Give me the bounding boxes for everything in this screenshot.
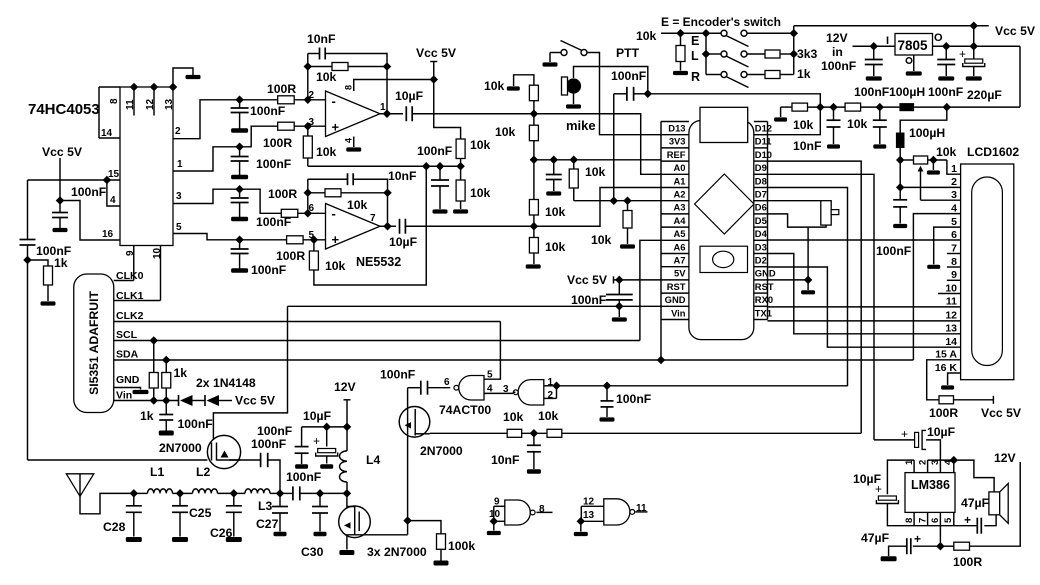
svg-text:D3: D3	[755, 241, 767, 252]
node Vin r1	[150, 396, 158, 404]
GND pin wire	[768, 279, 809, 281]
pot gnd stem	[932, 160, 934, 170]
label 100nF st2	[256, 157, 291, 171]
label PTT	[616, 46, 640, 60]
svg-text:6: 6	[444, 377, 450, 388]
LM386 pin8 label	[904, 518, 915, 523]
svg-text:10k: 10k	[503, 410, 524, 424]
100k gnd stem	[440, 549, 442, 560]
node drive cap	[530, 429, 538, 437]
opamp2 pin6 label	[308, 203, 314, 214]
D10 wire down	[768, 161, 862, 433]
plus 47uF byp	[914, 532, 921, 546]
terminal tick Vcc opamps	[430, 61, 437, 63]
100k wire	[408, 521, 441, 534]
label 10uF out2	[389, 235, 417, 249]
resistor 100R backlight	[939, 396, 954, 404]
svg-text:10µF: 10µF	[853, 472, 881, 486]
wire Vcc stem	[59, 158, 61, 201]
ground 7805	[906, 71, 922, 75]
switch E throw	[741, 30, 747, 36]
svg-text:1: 1	[177, 159, 183, 170]
MCU left pin line A0	[661, 173, 689, 175]
rail seg2	[808, 106, 846, 108]
4053 pin9 wire to CLK0	[133, 246, 135, 281]
svg-text:10nF: 10nF	[793, 139, 821, 153]
stem stack 2	[239, 147, 241, 157]
10uF to pin3	[926, 440, 940, 460]
wire RX0 to LCD pin11	[768, 306, 961, 308]
capacitor 10nF drive	[527, 445, 541, 452]
node C28	[130, 489, 138, 497]
label L1	[150, 465, 164, 479]
MCU right pin line RX0	[754, 305, 768, 307]
svg-text:9: 9	[951, 269, 957, 281]
junction pin12 top	[150, 83, 158, 91]
inductor 100uH vertical	[896, 133, 905, 149]
MCU left pin line GND	[661, 305, 689, 307]
MCU pin label D4	[755, 228, 768, 239]
cap 10nF right wire	[325, 54, 387, 114]
4053 pin15 line	[28, 179, 121, 181]
SI GND pin wire	[114, 388, 141, 390]
label 100nF rx3	[286, 470, 321, 484]
MCU right pin line D4	[754, 239, 768, 241]
ground 10uF 12V	[320, 464, 333, 469]
svg-text:1k: 1k	[140, 409, 154, 423]
Q2 internals	[405, 409, 416, 436]
enc 10k gnd	[680, 62, 682, 71]
label 47uF byp	[861, 531, 889, 545]
MCU pin label A3	[674, 202, 686, 213]
wire A2 line	[574, 200, 661, 202]
label 100nF f2	[928, 85, 963, 99]
svg-text:100nF: 100nF	[251, 437, 286, 451]
LM386 box	[905, 473, 955, 513]
speaker bottom wire	[984, 515, 996, 526]
Q2 drain lead	[415, 433, 429, 435]
ground C25	[172, 537, 188, 542]
opamp1 pin3 label	[308, 117, 314, 128]
resistor 10k A2 gnd	[623, 211, 632, 229]
svg-text:10k: 10k	[325, 259, 346, 273]
12V 100nF stem	[301, 427, 303, 447]
pin 2 label	[175, 126, 181, 137]
ground MCU	[801, 290, 815, 294]
svg-text:100nF: 100nF	[854, 85, 889, 99]
Q3 internals	[344, 507, 359, 535]
svg-text:5: 5	[943, 517, 954, 523]
terminal tick 5V	[613, 276, 615, 283]
node pin4/speaker	[950, 456, 958, 464]
L2 left	[180, 492, 193, 494]
LCD1602 module box	[961, 164, 1014, 380]
svg-text:100R: 100R	[929, 406, 958, 420]
supply wire east	[940, 545, 953, 547]
label 100nF rail	[417, 144, 452, 158]
LCD pin15 wire	[927, 360, 961, 400]
svg-text:R: R	[691, 70, 700, 84]
LCD pin 7 label	[951, 242, 957, 254]
node rail 426	[422, 162, 430, 170]
label 100uH v	[909, 126, 945, 140]
capacitor 100nF reg output	[937, 60, 955, 65]
pin divider 11	[133, 87, 135, 116]
C30 stem	[319, 493, 321, 506]
label 100nF 5V	[571, 293, 606, 307]
svg-text:10k: 10k	[585, 165, 606, 179]
SI5351 module box	[74, 274, 114, 413]
resistor 10k drive1	[507, 429, 522, 437]
node A2 res	[623, 196, 631, 204]
svg-text:A5: A5	[674, 228, 686, 239]
MCU left pin line 5V	[661, 279, 689, 281]
MCU left pin line 3V3	[661, 147, 689, 149]
svg-text:16 K: 16 K	[935, 362, 958, 374]
label 10uF	[395, 89, 423, 103]
resistor 10k bias1	[303, 136, 312, 158]
node 10uF 12V	[322, 423, 330, 431]
LCD pin7 stub	[947, 253, 961, 255]
gate12 tie	[556, 386, 558, 399]
L1 right	[173, 492, 181, 494]
node reg out cap	[942, 42, 950, 50]
SI5351 pin label SCL	[116, 329, 138, 341]
svg-text:8: 8	[539, 504, 545, 515]
LM386 bottom cell divider 2	[939, 512, 941, 525]
node L row	[702, 50, 710, 58]
encoder top wire	[661, 32, 721, 34]
audio1 wire to A0	[412, 114, 661, 175]
switch R pole	[721, 72, 727, 78]
svg-text:100nF: 100nF	[417, 144, 452, 158]
MCU pin label A6	[674, 241, 686, 252]
node gate1213	[577, 517, 585, 525]
label 74HC4053	[28, 101, 100, 118]
svg-text:2N7000: 2N7000	[159, 441, 202, 455]
svg-text:8: 8	[344, 85, 354, 90]
capacitor 100nF PA series	[293, 486, 300, 500]
PTT gnd stem	[549, 53, 551, 63]
label Vcc 5V diodes	[235, 394, 276, 408]
ground 10nF	[827, 144, 840, 148]
mike cap left wire	[614, 93, 627, 95]
SI5351 pin label GND	[116, 374, 140, 386]
svg-text:8: 8	[951, 256, 957, 268]
ladder wire1	[533, 101, 535, 126]
MCU pin label D11	[755, 136, 772, 147]
MCU pin label RX0	[755, 294, 773, 305]
push button tab	[831, 210, 839, 215]
label L2	[196, 465, 210, 479]
LM386 top cell divider 2	[939, 460, 941, 473]
stem stack 4	[239, 240, 241, 249]
label 47uF out	[961, 496, 989, 510]
opamp2 plus	[332, 232, 340, 247]
node C25	[176, 489, 184, 497]
encoder top wire2	[747, 32, 794, 34]
opamp1 pin1 label	[380, 102, 386, 113]
node reg in cap	[870, 42, 878, 50]
svg-text:100nF: 100nF	[380, 368, 415, 382]
svg-text:10µF: 10µF	[389, 235, 417, 249]
label C26	[210, 526, 233, 540]
resistor 10k D12 pulldown	[792, 103, 808, 111]
transistor Q2 2N7000 driver	[399, 407, 430, 438]
MCU right boundary	[767, 122, 769, 320]
pot left wire	[900, 159, 913, 161]
pot right wire	[928, 159, 947, 161]
SI5351 pin label CLK2	[116, 310, 144, 322]
svg-text:14: 14	[101, 128, 113, 139]
SI5351 pin label SDA	[116, 349, 139, 361]
CLK0 pin wire	[114, 280, 134, 282]
svg-text:100nF: 100nF	[71, 185, 106, 199]
svg-text:GND: GND	[665, 294, 686, 305]
svg-text:7: 7	[918, 518, 929, 523]
svg-text:100µH: 100µH	[889, 85, 925, 99]
switch E pole	[721, 30, 727, 36]
node pin6 supply	[936, 542, 944, 550]
switch R lever	[726, 77, 749, 88]
1k to ground	[47, 285, 49, 301]
IC U2 left extension (pins 8/14)	[99, 86, 120, 88]
pot wiper arrow	[918, 166, 924, 200]
MCU pin label TX1	[755, 307, 772, 318]
LCD pin9 stub	[947, 279, 961, 281]
diode to Vcc	[219, 400, 232, 402]
mike gnd stem	[573, 94, 575, 105]
resistor 10k to A2	[569, 169, 578, 188]
label 100R supply	[953, 555, 982, 569]
wire D2 to LCD pin14	[768, 267, 961, 347]
encoder rail vertical	[793, 26, 795, 75]
node mike cap	[644, 90, 652, 98]
12V 100nF gnd	[301, 453, 303, 464]
svg-text:1: 1	[951, 163, 957, 175]
node SDA pullup	[162, 356, 170, 364]
label 100uH h	[889, 85, 925, 99]
C26 gnd stem	[233, 512, 235, 536]
LCD pin8 stub	[947, 266, 961, 268]
stem 220uF	[973, 46, 975, 59]
svg-text:Vcc 5V: Vcc 5V	[981, 406, 1022, 420]
capacitor 100nF contrast	[893, 200, 907, 207]
gate pin10 line	[494, 520, 505, 522]
label 3x 2N7000	[367, 545, 427, 559]
switch L throw	[741, 51, 747, 57]
svg-text:L2: L2	[196, 465, 210, 479]
drive line mid	[522, 432, 547, 434]
MCU pin label GND	[755, 268, 776, 279]
wire cap to node	[27, 245, 29, 260]
SDA pullup bot	[165, 388, 167, 401]
svg-text:100nF: 100nF	[256, 157, 291, 171]
gate1213 tie	[580, 506, 582, 521]
gate pin9 line	[494, 505, 505, 507]
resistor 1k SCL pullup	[149, 373, 158, 389]
svg-text:1k: 1k	[174, 366, 188, 380]
label 10k upper div	[470, 138, 491, 152]
svg-text:100µH: 100µH	[909, 126, 945, 140]
stem2 stack 3	[239, 203, 241, 218]
ground pot	[927, 170, 940, 174]
MCU left pin line A6	[661, 253, 689, 255]
PTT switch pole	[561, 50, 567, 56]
bias rail Vcc/2	[308, 165, 461, 167]
push button box	[821, 201, 831, 225]
gate8 out stub	[536, 511, 552, 513]
LM386 pin7 label	[918, 518, 929, 523]
node rail 460	[456, 162, 464, 170]
label E = Encoders switch	[661, 15, 781, 29]
label O	[934, 32, 943, 44]
opamp1 minus	[332, 94, 336, 109]
svg-text:Vcc 5V: Vcc 5V	[235, 394, 276, 408]
MCU pin label D10	[755, 149, 772, 160]
pin 3 label	[176, 191, 182, 202]
svg-text:A0: A0	[674, 162, 686, 173]
resistor 10k upper divider	[456, 139, 465, 159]
wire D3 to LCD pin13	[768, 254, 961, 334]
label 100R r2	[263, 136, 292, 150]
label 1k enc	[797, 67, 811, 81]
svg-text:C30: C30	[301, 545, 324, 559]
4053 pin10 wire to CLK1	[160, 246, 162, 301]
label 3k3	[797, 47, 818, 61]
opamp1 pin8 Vcc wire	[354, 80, 434, 92]
LM386 pin3 label	[930, 460, 941, 465]
ground ladder	[526, 264, 541, 268]
gate pin13 line	[580, 520, 604, 522]
Q1 internals	[212, 443, 241, 461]
label L4	[366, 453, 380, 467]
lower divider gnd2	[460, 201, 462, 209]
wire 100R to opamp1 -in	[294, 99, 325, 101]
svg-text:2N7000: 2N7000	[420, 444, 463, 458]
svg-text:100nF: 100nF	[251, 263, 286, 277]
resistor 10k encoder	[676, 46, 685, 62]
svg-text:A4: A4	[674, 215, 687, 226]
label 10nF fb2	[388, 169, 416, 183]
MCU right top cell line	[754, 121, 768, 123]
bypass to gnd	[889, 546, 907, 556]
svg-text:10µF: 10µF	[303, 409, 331, 423]
gate pin12 label	[583, 497, 595, 508]
node rail L	[790, 50, 798, 58]
ground 47uF bypass	[881, 556, 897, 561]
feedback2 left vertical	[307, 179, 309, 213]
svg-text:10µF: 10µF	[927, 425, 955, 439]
node 1k tap	[23, 256, 31, 264]
stem stack 3	[239, 189, 241, 198]
C28 stem	[133, 493, 135, 505]
svg-text:L4: L4	[366, 453, 380, 467]
resistor 100R #2	[278, 122, 295, 130]
capacitor 100nF Vin	[159, 415, 173, 421]
gate pin6 label	[444, 377, 450, 388]
rail cap gnd stem	[439, 186, 441, 209]
GND pin stem	[807, 280, 809, 290]
node fb2 right	[383, 189, 391, 197]
cap 10nF2 left wire	[308, 178, 348, 180]
svg-text:16: 16	[102, 229, 114, 240]
MCU pin label D6	[755, 202, 767, 213]
opamp2 pin5 label	[308, 230, 314, 241]
node gate12	[552, 382, 560, 390]
R row left	[706, 74, 721, 76]
capacitor 10uF output2	[400, 219, 406, 234]
enc common vertical	[705, 33, 707, 74]
svg-text:L3: L3	[258, 499, 272, 513]
inductor 100uH horizontal	[899, 103, 914, 111]
ground stack 2	[231, 175, 248, 180]
4053 pin2 wire	[173, 100, 240, 139]
node after inductor	[943, 103, 951, 111]
label 100k	[448, 539, 475, 553]
feedback2 res wire	[308, 192, 325, 194]
svg-text:13: 13	[945, 323, 957, 335]
reg out cap gnd	[945, 65, 947, 77]
svg-text:SCL: SCL	[116, 329, 138, 341]
cap 10nF left wire	[308, 53, 320, 55]
MCU pin label A5	[674, 228, 686, 239]
capacitor 10nF feedback1	[320, 48, 326, 60]
cap to ground stem	[59, 218, 61, 229]
SI5351 pin label CLK0	[116, 270, 144, 282]
node Vcc opamps	[430, 75, 438, 83]
ground LCD pin5	[927, 265, 940, 269]
wire Vcc down to divider	[434, 80, 461, 140]
potentiometer 10k contrast	[914, 156, 928, 164]
button gnd drop	[807, 227, 809, 280]
L2 right	[218, 492, 234, 494]
LCD pin 13 label	[945, 323, 957, 335]
node Vcc filter	[876, 103, 884, 111]
10nF gnd stem	[833, 127, 835, 144]
label 100nF TX	[380, 368, 415, 382]
inductor L4	[340, 451, 347, 482]
LCD pin 16 label	[935, 362, 958, 374]
capacitor 47uF bypass	[907, 538, 911, 554]
MCU pin label D12	[755, 123, 772, 134]
svg-text:12: 12	[945, 310, 957, 322]
MCU left pin line D13	[661, 134, 689, 136]
opamp1 pin8 label	[344, 85, 354, 90]
svg-text:L: L	[691, 49, 699, 63]
label 10k ladder3	[545, 205, 566, 219]
node rail res2	[570, 156, 578, 164]
gate pin2 label	[548, 390, 554, 401]
wire 100R3 to opamp2 -in	[298, 212, 326, 214]
gate pin9 label	[494, 497, 500, 508]
MCU pin label 3V3	[669, 136, 686, 147]
MCU right pin line D3	[754, 253, 768, 255]
C27 stem	[279, 493, 281, 506]
svg-text:7805: 7805	[898, 38, 929, 53]
ground C27	[274, 532, 287, 537]
gate pin3 label	[503, 384, 509, 395]
LM386 top cell line	[928, 459, 954, 461]
svg-text:100nF: 100nF	[616, 392, 651, 406]
label C25	[189, 506, 212, 520]
capacitor 10uF LM386 in	[901, 427, 926, 449]
ground under cap	[53, 228, 68, 232]
svg-text:4: 4	[344, 138, 354, 143]
bypass wire west	[913, 545, 941, 547]
stem rail cap	[439, 166, 441, 180]
svg-text:PTT: PTT	[616, 46, 640, 60]
